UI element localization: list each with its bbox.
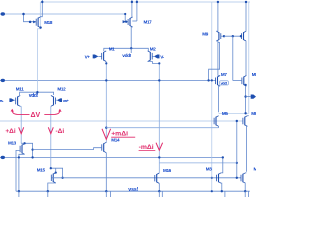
- svg-text:+mΔi: +mΔi: [111, 131, 128, 138]
- svg-text:M16: M16: [163, 168, 172, 173]
- svg-text:V+: V+: [85, 55, 91, 60]
- svg-text:M2: M2: [150, 46, 156, 51]
- svg-text:va+: va+: [63, 98, 70, 103]
- svg-text:vdd!: vdd!: [221, 81, 227, 85]
- svg-text:M5: M5: [222, 111, 228, 116]
- svg-text:M12: M12: [57, 87, 66, 92]
- svg-text:-Δi: -Δi: [56, 128, 65, 135]
- svg-text:vdd!: vdd!: [122, 53, 131, 59]
- svg-text:M15: M15: [37, 167, 46, 172]
- svg-text:ΔV: ΔV: [31, 112, 41, 119]
- svg-text:V-: V-: [160, 55, 164, 60]
- svg-text:-mΔi: -mΔi: [139, 144, 154, 151]
- svg-text:M4: M4: [254, 166, 257, 171]
- svg-text:M3: M3: [206, 166, 212, 171]
- svg-text:M13: M13: [8, 141, 17, 146]
- svg-text:M18: M18: [44, 20, 53, 25]
- svg-text:M9: M9: [202, 32, 208, 37]
- svg-text:M11: M11: [16, 87, 24, 92]
- svg-text:M1: M1: [109, 46, 115, 51]
- svg-text:vss!: vss!: [128, 187, 138, 193]
- svg-text:+Δi: +Δi: [5, 128, 15, 135]
- svg-text:va-: va-: [0, 98, 4, 103]
- svg-text:M17: M17: [144, 20, 153, 25]
- svg-text:M7: M7: [221, 72, 227, 77]
- svg-text:vdd!: vdd!: [29, 93, 39, 99]
- svg-text:M6: M6: [251, 111, 256, 116]
- svg-text:M8: M8: [252, 72, 256, 77]
- svg-text:M14: M14: [111, 138, 120, 143]
